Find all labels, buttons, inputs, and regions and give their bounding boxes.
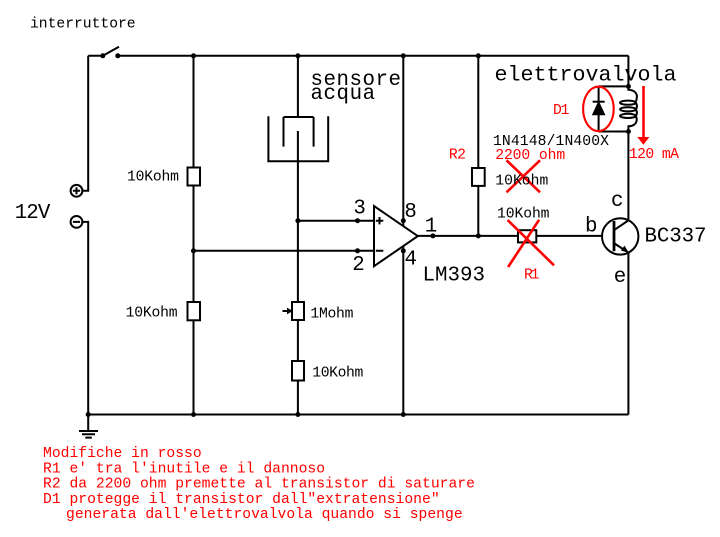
svg-text:acqua: acqua	[311, 83, 376, 106]
svg-text:D1: D1	[553, 103, 570, 119]
svg-text:LM393: LM393	[423, 265, 486, 288]
svg-text:10Kohm: 10Kohm	[497, 206, 550, 222]
svg-text:interruttore: interruttore	[30, 16, 136, 32]
svg-text:Modifiche in rosso: Modifiche in rosso	[43, 446, 202, 462]
svg-text:b: b	[585, 216, 597, 239]
svg-text:D1 protegge il transistor dall: D1 protegge il transistor dall"extratens…	[43, 492, 440, 508]
svg-text:R2 da 2200 ohm premette al tra: R2 da 2200 ohm premette al transistor di…	[43, 477, 475, 493]
svg-text:10Kohm: 10Kohm	[312, 366, 363, 382]
svg-text:1: 1	[425, 216, 437, 239]
svg-text:R1 e' tra l'inutile e il danno: R1 e' tra l'inutile e il dannoso	[43, 461, 325, 477]
svg-text:4: 4	[405, 249, 417, 272]
svg-text:120 mA: 120 mA	[629, 147, 679, 163]
svg-text:10Kohm: 10Kohm	[127, 170, 179, 186]
svg-text:R2: R2	[449, 147, 466, 163]
svg-text:R1: R1	[524, 268, 540, 284]
svg-text:generata dall'elettrovalvola q: generata dall'elettrovalvola quando si s…	[66, 507, 463, 523]
svg-text:e: e	[614, 266, 626, 289]
svg-text:2: 2	[352, 254, 364, 277]
svg-text:elettrovalvola: elettrovalvola	[495, 64, 677, 87]
svg-text:c: c	[611, 190, 623, 213]
svg-text:10Kohm: 10Kohm	[495, 173, 548, 189]
svg-text:3: 3	[353, 198, 365, 221]
svg-text:BC337: BC337	[645, 226, 707, 249]
svg-text:1Mohm: 1Mohm	[310, 307, 353, 323]
svg-text:12V: 12V	[15, 202, 51, 225]
svg-text:2200 ohm: 2200 ohm	[495, 148, 565, 164]
svg-text:8: 8	[404, 201, 416, 224]
svg-text:10Kohm: 10Kohm	[126, 305, 178, 321]
